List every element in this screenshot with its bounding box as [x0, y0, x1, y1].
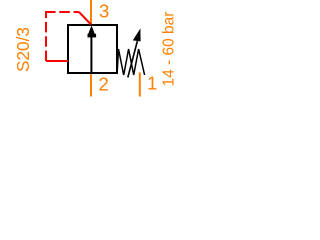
svg-text:1: 1	[147, 73, 157, 94]
svg-text:S20/3: S20/3	[13, 27, 33, 72]
port 3 line	[90, 0, 92, 24]
adjustment arrow shaft	[128, 41, 138, 78]
flow arrowhead	[88, 25, 95, 34]
pilot line solid into box left	[46, 60, 68, 62]
pilot line dashed vertical	[45, 11, 47, 61]
valve envelope box	[68, 25, 117, 73]
pilot line diagonal to port 3 junction	[79, 12, 91, 25]
svg-text:14 - 60 bar: 14 - 60 bar	[161, 12, 178, 87]
svg-text:3: 3	[99, 1, 109, 22]
svg-text:2: 2	[99, 74, 109, 95]
pilot line dashed horizontal top	[45, 11, 79, 13]
flow arrow stem	[90, 35, 92, 73]
adjustment arrowhead	[133, 28, 141, 41]
spring zigzag	[117, 49, 144, 75]
port 2 line	[90, 74, 92, 97]
port 1 line	[139, 73, 141, 97]
